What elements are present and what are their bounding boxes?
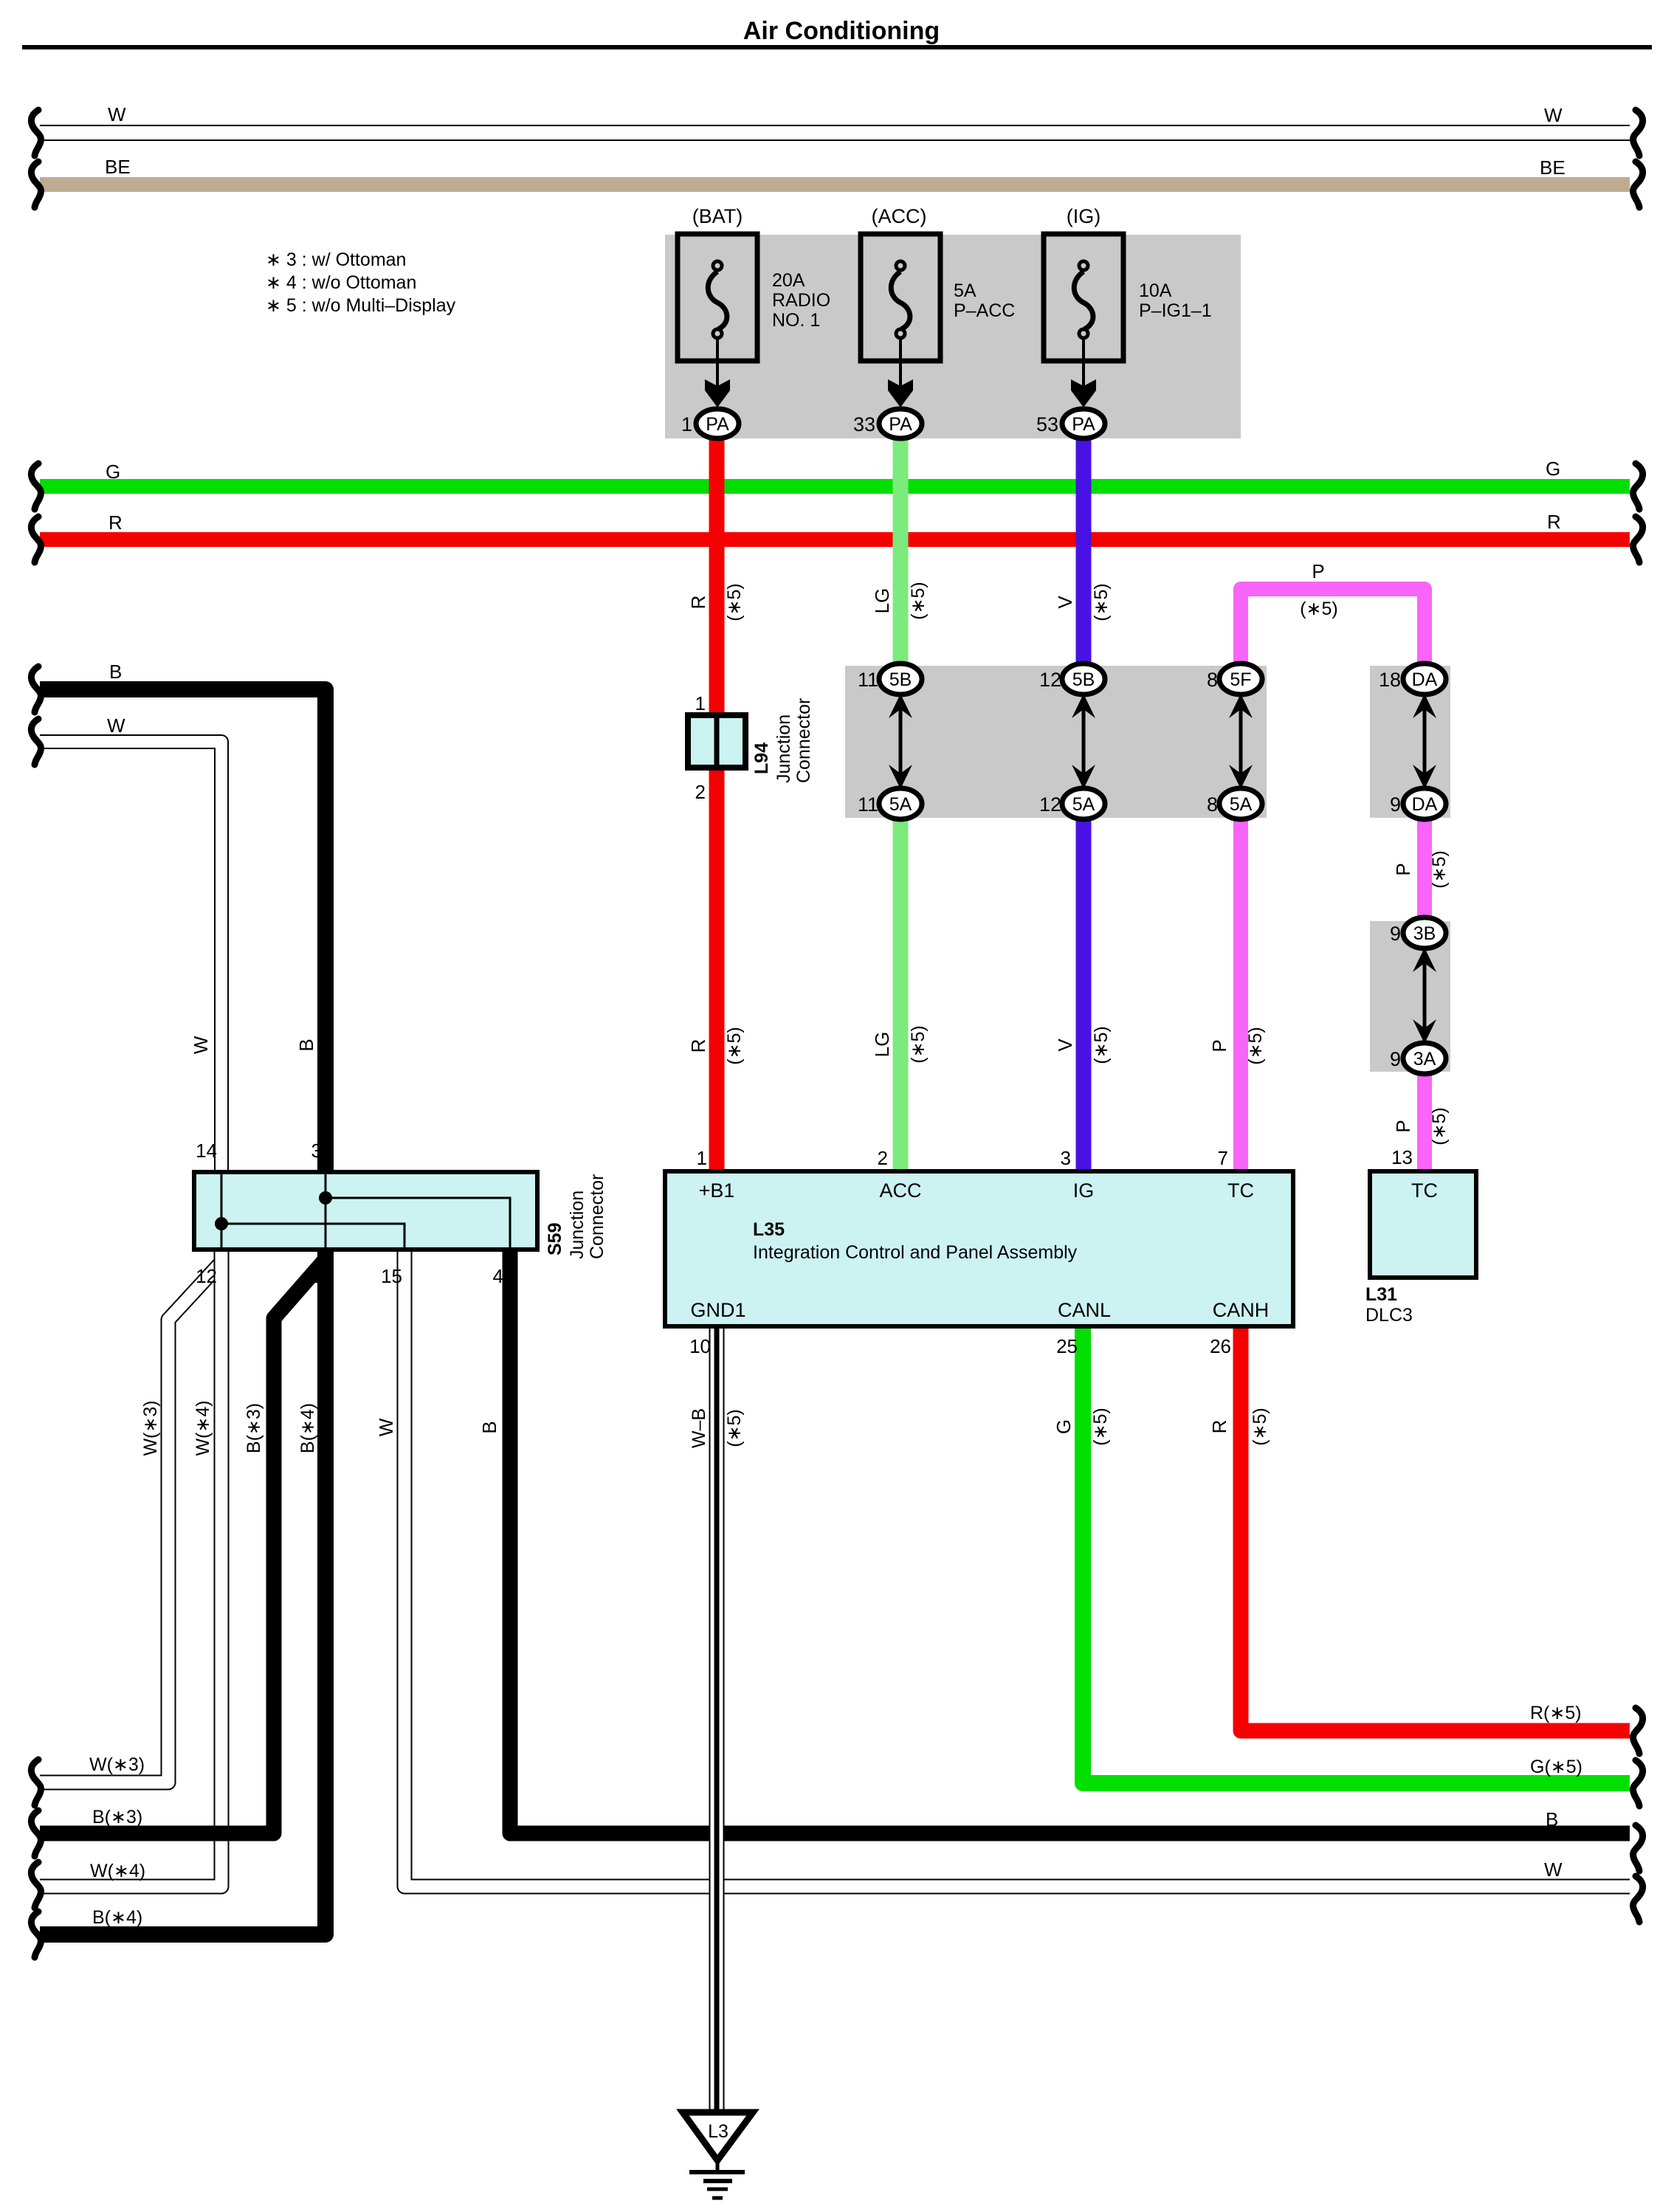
label 20A RADIO NO. 1 (772, 270, 830, 331)
wire P from L35 TC up to 5A (1233, 819, 1248, 1171)
connector 3A pin 9 (1390, 1043, 1446, 1074)
svg-text:1: 1 (311, 1265, 322, 1287)
svg-text:P: P (1312, 560, 1324, 582)
svg-text:PA: PA (706, 414, 729, 435)
svg-text:B: B (109, 661, 122, 683)
svg-text:12: 12 (196, 1265, 217, 1287)
wire W(*3) from S59 pin 12 to left edge (white) (40, 1262, 221, 1782)
wire G bus (40, 479, 1630, 494)
brace left B (31, 666, 41, 712)
svg-text:12: 12 (1039, 793, 1061, 816)
connector 5F pin 8 (1207, 664, 1262, 695)
brace right BE (1633, 162, 1643, 207)
wire BE bus (40, 177, 1630, 192)
svg-text:B(∗4): B(∗4) (297, 1403, 318, 1453)
svg-text:V: V (1054, 1038, 1076, 1052)
svg-text:B(∗3): B(∗3) (92, 1807, 142, 1827)
title underline (22, 45, 1652, 49)
connector 5A pin 12 (1039, 788, 1105, 819)
junction connector L94 (688, 715, 745, 768)
svg-text:DA: DA (1412, 669, 1438, 690)
wire B(*3) from S59 pin 1 to left edge (40, 1259, 325, 1833)
svg-text:Junction: Junction (567, 1191, 588, 1259)
connector 3B pin 9 (1390, 917, 1446, 948)
wire W-B from L35 GND1 to ground L3 (709, 1326, 725, 2109)
svg-text:W: W (107, 714, 125, 737)
connector pin 53 PA (1036, 409, 1105, 438)
svg-text:PA: PA (889, 414, 912, 435)
wire W bus top (white) (40, 125, 1630, 141)
title Air Conditioning (743, 17, 940, 45)
arrow between DA and DA (1413, 694, 1436, 789)
svg-text:15: 15 (381, 1265, 402, 1287)
svg-text:26: 26 (1210, 1335, 1231, 1357)
svg-text:9: 9 (1390, 793, 1401, 816)
svg-text:B: B (1546, 1808, 1558, 1830)
svg-text:W: W (1544, 104, 1563, 126)
svg-text:10: 10 (689, 1335, 711, 1357)
svg-text:(∗5): (∗5) (1250, 1408, 1270, 1446)
svg-text:11: 11 (858, 793, 878, 816)
connector 5A pin 8 (1207, 788, 1262, 819)
svg-text:(ACC): (ACC) (872, 205, 927, 227)
svg-text:(∗5): (∗5) (908, 582, 929, 620)
wire R bus (40, 532, 1630, 547)
svg-text:B(∗4): B(∗4) (92, 1907, 142, 1928)
ECU L35 Integration Control and Panel Assembly (665, 1171, 1293, 1326)
brace right W top (1633, 110, 1643, 156)
svg-text:3: 3 (311, 1140, 322, 1162)
fuse 5A P-ACC (861, 234, 940, 361)
svg-text:P: P (1392, 1120, 1414, 1132)
label Junction Connector of L94 (774, 698, 814, 783)
brace left W(*3) (31, 1760, 41, 1805)
svg-text:10A: 10A (1139, 280, 1172, 301)
brace left R (31, 517, 41, 562)
svg-text:Integration Control and Panel: Integration Control and Panel Assembly (753, 1242, 1078, 1263)
svg-text:DLC3: DLC3 (1365, 1305, 1413, 1326)
svg-text:9: 9 (1390, 1048, 1401, 1070)
ground L3 (683, 2112, 753, 2198)
svg-text:G: G (1546, 458, 1560, 480)
arrow between 5B and 5A (col 2) (1072, 694, 1095, 789)
wire B from S59 pin 4 to right edge (510, 1251, 1630, 1833)
wire W left bus to S59 pin 14 (white) (40, 742, 221, 1174)
svg-text:CANL: CANL (1058, 1299, 1111, 1321)
legend notes (266, 249, 456, 316)
svg-text:LG: LG (871, 1032, 893, 1058)
svg-text:LG: LG (871, 588, 893, 614)
svg-text:+B1: +B1 (699, 1179, 735, 1202)
arrow from fuse ACC to PA (888, 338, 913, 407)
svg-text:5B: 5B (1072, 669, 1095, 690)
svg-text:TC: TC (1411, 1179, 1438, 1202)
svg-text:W–B: W–B (689, 1408, 709, 1448)
svg-text:53: 53 (1036, 413, 1058, 435)
brace right R(*5) (1633, 1708, 1643, 1754)
svg-text:(∗5): (∗5) (908, 1025, 929, 1064)
wire V from PA pin 53 to 5B (1076, 438, 1092, 665)
svg-text:8: 8 (1207, 669, 1218, 691)
arrow between 5F and 5A (col 3) (1229, 694, 1253, 789)
svg-text:R: R (687, 1039, 709, 1053)
svg-text:3B: 3B (1413, 923, 1436, 944)
wire V from 5A to L35 IG (1076, 818, 1092, 1171)
brace left W top (31, 110, 41, 156)
brace left B(*4) (31, 1912, 41, 1957)
svg-text:(∗5): (∗5) (724, 583, 745, 621)
svg-text:Junction: Junction (774, 714, 794, 783)
svg-text:P: P (1392, 863, 1414, 875)
svg-text:5A: 5A (889, 794, 912, 815)
svg-text:Connector: Connector (587, 1174, 607, 1259)
gray box junction 3B/3A (1370, 921, 1450, 1072)
svg-text:(∗5): (∗5) (724, 1409, 745, 1447)
svg-text:R(∗5): R(∗5) (1530, 1703, 1582, 1723)
svg-text:(∗5): (∗5) (1429, 1107, 1450, 1145)
wire W from S59 pin 15 to right edge (white) (404, 1251, 1630, 1887)
gray box junction DA (1370, 666, 1450, 818)
svg-text:G: G (1053, 1419, 1075, 1434)
svg-text:BE: BE (105, 156, 131, 178)
brace left G (31, 464, 41, 509)
svg-text:5B: 5B (889, 669, 912, 690)
brace left W second (31, 719, 41, 765)
svg-text:B(∗3): B(∗3) (244, 1403, 264, 1453)
connector pin 33 PA (853, 409, 922, 438)
svg-text:(∗5): (∗5) (1429, 850, 1450, 889)
wire W(*4) from S59 pin 12 to left edge (white) (40, 1251, 221, 1887)
svg-text:(BAT): (BAT) (692, 205, 743, 227)
svg-text:W(∗3): W(∗3) (89, 1754, 145, 1775)
svg-text:R: R (1208, 1420, 1230, 1434)
wire P from 3A down to L31 TC (1417, 1072, 1432, 1171)
junction connector S59 (194, 1172, 537, 1250)
svg-text:BE: BE (1540, 156, 1565, 179)
wire B left bus to S59 pin 3 (40, 689, 325, 1174)
svg-text:W: W (375, 1418, 397, 1436)
svg-text:W(∗4): W(∗4) (193, 1400, 213, 1455)
svg-text:P–ACC: P–ACC (954, 300, 1015, 321)
svg-text:25: 25 (1056, 1335, 1078, 1357)
connector 5A pin 11 (858, 788, 922, 819)
svg-text:(∗5): (∗5) (1300, 599, 1338, 619)
svg-text:12: 12 (1039, 669, 1061, 691)
svg-text:9: 9 (1390, 923, 1401, 945)
wire G CANL from L35 pin 25 to right edge (1083, 1326, 1630, 1783)
svg-text:R: R (687, 596, 709, 610)
gray box fuses (665, 235, 1241, 438)
svg-text:P: P (1208, 1039, 1230, 1052)
wire B(*4) from S59 pin 1 to left edge (40, 1251, 325, 1934)
connector 5B pin 12 (1039, 664, 1105, 695)
label 10A P-IG1-1 (1139, 280, 1212, 321)
svg-text:W(∗3): W(∗3) (140, 1400, 161, 1455)
svg-text:G: G (106, 461, 120, 483)
svg-text:2: 2 (878, 1147, 888, 1169)
connector 5B pin 11 (858, 664, 922, 695)
svg-text:1: 1 (697, 1147, 707, 1169)
brace left BE (31, 162, 41, 207)
wire P from DA down to 3B (1417, 818, 1432, 920)
svg-text:R: R (108, 511, 123, 534)
brace right W bottom (1633, 1876, 1643, 1922)
svg-text:∗ 5 : w/o Multi–Display: ∗ 5 : w/o Multi–Display (266, 295, 456, 316)
svg-text:5A: 5A (954, 280, 976, 301)
svg-text:R: R (1547, 511, 1561, 533)
svg-text:IG: IG (1073, 1179, 1095, 1202)
fuse 20A RADIO NO. 1 (678, 234, 757, 361)
svg-text:W: W (190, 1036, 212, 1054)
svg-text:CANH: CANH (1213, 1299, 1270, 1321)
brace right R (1633, 517, 1643, 562)
svg-text:ACC: ACC (879, 1179, 921, 1202)
svg-text:DA: DA (1412, 794, 1438, 815)
svg-text:33: 33 (853, 413, 875, 435)
svg-text:TC: TC (1227, 1179, 1254, 1202)
svg-text:B: B (478, 1421, 500, 1433)
wire R from PA pin 1 to L35 +B1 (709, 438, 725, 1171)
svg-text:5A: 5A (1230, 794, 1253, 815)
svg-text:B: B (295, 1038, 317, 1051)
brace right G (1633, 464, 1643, 509)
wire LG from PA pin 33 to 5B (893, 438, 909, 665)
svg-text:11: 11 (858, 669, 878, 691)
svg-text:3A: 3A (1413, 1049, 1436, 1069)
svg-text:(∗5): (∗5) (1090, 1408, 1111, 1446)
svg-text:P–IG1–1: P–IG1–1 (1139, 300, 1212, 321)
svg-text:5A: 5A (1072, 794, 1095, 815)
svg-text:L3: L3 (708, 2121, 728, 2142)
svg-text:Connector: Connector (793, 698, 814, 783)
brace right G(*5) (1633, 1760, 1643, 1806)
connector DA pin 9 (1390, 788, 1446, 819)
arrow from fuse IG to PA (1071, 338, 1096, 407)
svg-text:Air Conditioning: Air Conditioning (743, 17, 940, 45)
connector L31 DLC3 (1370, 1171, 1476, 1278)
fuse 10A P-IG1-1 (1044, 234, 1123, 361)
svg-text:L94: L94 (751, 742, 772, 774)
connector pin 1 PA (681, 409, 739, 438)
svg-text:W: W (1544, 1858, 1563, 1881)
svg-text:L31: L31 (1365, 1284, 1397, 1305)
wire LG from 5A to L35 ACC (893, 818, 909, 1171)
wire P loop from 5F over to DA (1241, 589, 1425, 665)
arrow between 5B and 5A (col 1) (889, 694, 912, 789)
svg-text:13: 13 (1391, 1146, 1413, 1168)
brace right B bottom (1633, 1825, 1643, 1871)
svg-text:1: 1 (695, 692, 706, 714)
label 5A P-ACC (954, 280, 1015, 321)
svg-text:∗ 4 : w/o Ottoman: ∗ 4 : w/o Ottoman (266, 272, 416, 293)
svg-text:W(∗4): W(∗4) (90, 1861, 145, 1881)
svg-text:3: 3 (1061, 1147, 1071, 1169)
connector DA pin 18 (1379, 664, 1446, 695)
svg-text:(∗5): (∗5) (1091, 1026, 1112, 1064)
svg-text:∗ 3 : w/ Ottoman: ∗ 3 : w/ Ottoman (266, 249, 406, 270)
svg-text:(IG): (IG) (1067, 205, 1101, 227)
svg-text:V: V (1054, 596, 1076, 609)
svg-text:2: 2 (695, 781, 706, 803)
svg-text:8: 8 (1207, 793, 1218, 816)
arrow from fuse BAT to PA (705, 338, 730, 407)
svg-text:L35: L35 (753, 1219, 785, 1240)
brace left W(*4) (31, 1862, 41, 1908)
svg-text:(∗5): (∗5) (1091, 583, 1112, 621)
svg-text:20A: 20A (772, 270, 805, 291)
svg-text:5F: 5F (1230, 669, 1251, 690)
svg-text:(∗5): (∗5) (724, 1027, 745, 1065)
svg-text:14: 14 (196, 1140, 217, 1162)
svg-text:S59: S59 (545, 1223, 565, 1255)
svg-text:RADIO: RADIO (772, 290, 830, 311)
svg-text:NO. 1: NO. 1 (772, 310, 820, 331)
label Junction Connector of S59 (567, 1174, 607, 1259)
wire R CANH from L35 pin 26 to right edge (1241, 1326, 1630, 1731)
svg-text:(∗5): (∗5) (1245, 1027, 1266, 1065)
svg-text:G(∗5): G(∗5) (1530, 1757, 1582, 1777)
svg-text:4: 4 (493, 1265, 503, 1287)
svg-text:W: W (108, 103, 126, 125)
arrow between 3B and 3A (1413, 948, 1436, 1044)
brace left B(*3) (31, 1810, 41, 1856)
svg-text:7: 7 (1218, 1147, 1228, 1169)
svg-text:18: 18 (1379, 669, 1401, 691)
svg-text:PA: PA (1072, 414, 1095, 435)
gray box junction 5B/5A (845, 666, 1267, 818)
svg-text:1: 1 (681, 413, 692, 435)
svg-text:GND1: GND1 (690, 1299, 745, 1321)
